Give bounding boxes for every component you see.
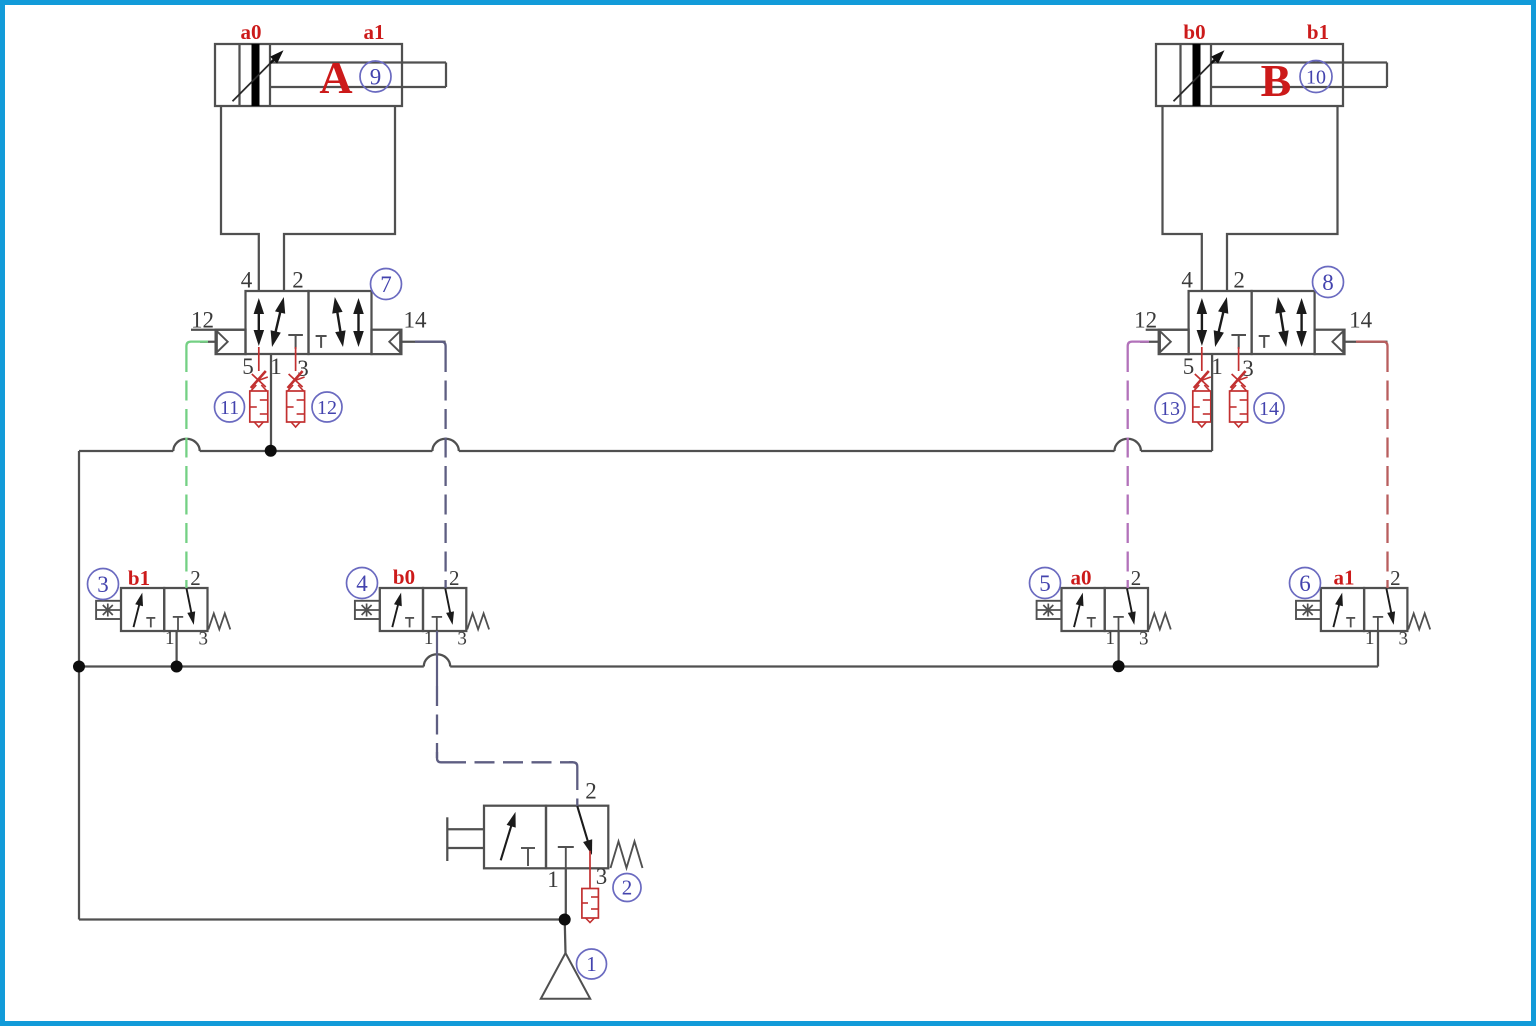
svg-text:3: 3 — [596, 864, 608, 889]
wire cylinder B left port to valve 8 port 4 — [1163, 106, 1202, 291]
balloon 10 — [1300, 61, 1332, 93]
silencer 11 on valve 7 port 5 — [250, 347, 268, 427]
svg-text:1: 1 — [165, 628, 175, 649]
svg-text:13: 13 — [1160, 398, 1180, 420]
svg-text:a1: a1 — [1334, 566, 1355, 590]
pilot line green valve 3 to valve 7 port 12 — [186, 342, 208, 588]
valve 7 port 12 stub — [191, 330, 246, 342]
svg-text:14: 14 — [1259, 398, 1279, 420]
junction valve 7 port 1 / bus — [265, 445, 277, 457]
svg-text:1: 1 — [586, 952, 597, 976]
svg-text:11: 11 — [220, 397, 239, 419]
svg-text:a1: a1 — [364, 20, 385, 44]
balloon 4 — [347, 568, 378, 599]
svg-text:6: 6 — [1299, 571, 1311, 596]
valve 8 port 12 stub — [1140, 330, 1189, 342]
wire cylinder A right port to valve 7 port 2 — [284, 106, 395, 291]
valve 2 push button actuator — [447, 817, 484, 861]
svg-text:4: 4 — [356, 571, 368, 596]
valve 8 5/2 impulse valve — [1159, 291, 1345, 354]
label a1 — [1334, 566, 1355, 590]
valve 7 port labels — [191, 268, 427, 382]
svg-text:10: 10 — [1306, 66, 1326, 88]
label A — [319, 52, 352, 103]
bottom supply wire — [79, 918, 565, 920]
svg-text:3: 3 — [199, 629, 209, 650]
svg-text:2: 2 — [1390, 566, 1401, 590]
silencer 12 on valve 7 port 3 — [287, 347, 305, 427]
svg-text:a0: a0 — [1071, 566, 1092, 590]
svg-text:5: 5 — [1039, 571, 1051, 596]
pressure bus lower — [79, 631, 1378, 667]
junction left riser / lower bus — [73, 661, 85, 673]
svg-text:2: 2 — [1233, 268, 1245, 293]
wire valve 5 port 1 to bus — [1117, 631, 1119, 667]
svg-text:a0: a0 — [241, 20, 262, 44]
junction source / valve 2 port 1 — [559, 914, 571, 926]
balloon 1 — [577, 949, 607, 979]
wire valve 2 port 1 down — [565, 868, 567, 919]
silencer 14 on valve 8 port 3 — [1230, 347, 1248, 427]
valve 8 port 14 stub — [1345, 341, 1388, 343]
wire valve 7 port 1 down to bus — [270, 354, 272, 451]
silencer 13 on valve 8 port 5 — [1193, 347, 1211, 427]
svg-text:4: 4 — [241, 268, 253, 293]
svg-text:2: 2 — [190, 566, 201, 590]
cylinder B (component 10) — [1156, 44, 1387, 106]
wire valve 8 port 1 down to bus — [1211, 354, 1213, 451]
svg-text:12: 12 — [317, 397, 337, 419]
svg-text:3: 3 — [457, 629, 467, 650]
svg-text:b0: b0 — [393, 565, 415, 589]
svg-text:1: 1 — [547, 867, 559, 892]
balloon 14 — [1254, 393, 1284, 423]
label b1 — [1307, 20, 1329, 44]
balloon 9 — [360, 61, 391, 92]
label a0 — [241, 20, 262, 44]
label B — [1261, 55, 1292, 106]
svg-text:b0: b0 — [1183, 20, 1205, 44]
valve 2 port labels — [547, 779, 607, 893]
balloon 2 — [613, 874, 641, 902]
valve 6 roller limit valve a1 — [1296, 566, 1430, 650]
pressure bus upper — [79, 439, 1212, 451]
valve 5 roller limit valve a0 — [1037, 566, 1171, 650]
pilot line red valve 8 port 14 to valve 6 port 2 — [1356, 342, 1388, 588]
pilot line blue valve 7 port 14 to valve 4 port 2 — [415, 342, 446, 588]
pilot line purple valve 8 port 12 to valve 5 port 2 — [1128, 342, 1149, 588]
valve 7 5/2 impulse valve — [216, 291, 402, 354]
junction valve 3 port 1 — [171, 661, 183, 673]
balloon 13 — [1155, 393, 1185, 423]
svg-text:B: B — [1261, 55, 1292, 106]
wire valve 3 port 1 to bus — [175, 631, 177, 667]
balloon 5 — [1030, 568, 1061, 599]
svg-text:3: 3 — [1242, 356, 1254, 381]
label a1 — [364, 20, 385, 44]
valve 2 push-button 3/2 valve — [484, 806, 643, 869]
wire cylinder B right port to valve 8 port 2 — [1227, 106, 1338, 291]
valve 7 port 14 stub — [401, 341, 445, 343]
valve 4 roller limit valve b0 — [355, 566, 489, 650]
svg-text:3: 3 — [97, 572, 109, 597]
valve 8 port labels — [1134, 268, 1373, 382]
label a0 — [1071, 566, 1092, 590]
valve 3 roller limit valve b1 — [96, 566, 230, 650]
balloon 12 — [312, 392, 342, 422]
svg-text:4: 4 — [1181, 268, 1193, 293]
svg-text:7: 7 — [380, 272, 392, 297]
svg-text:b1: b1 — [128, 566, 150, 590]
svg-text:8: 8 — [1322, 270, 1334, 295]
silencer on valve 2 port 3 — [582, 851, 599, 923]
svg-text:1: 1 — [424, 628, 434, 649]
balloon 11 — [215, 392, 245, 422]
svg-text:2: 2 — [622, 876, 633, 900]
svg-text:14: 14 — [1349, 308, 1373, 333]
svg-text:2: 2 — [1131, 566, 1142, 590]
svg-text:1: 1 — [1106, 628, 1116, 649]
svg-text:2: 2 — [449, 566, 460, 590]
svg-text:1: 1 — [1365, 628, 1375, 649]
svg-text:3: 3 — [1398, 629, 1408, 650]
balloon 8 — [1313, 267, 1344, 298]
wire cylinder A left port to valve 7 port 4 — [221, 106, 259, 291]
compressed air source (component 1) — [541, 920, 590, 999]
balloon 7 — [371, 269, 402, 300]
svg-text:b1: b1 — [1307, 20, 1329, 44]
svg-text:5: 5 — [1183, 354, 1195, 379]
svg-text:2: 2 — [292, 268, 304, 293]
svg-text:14: 14 — [404, 308, 428, 333]
pilot line blue valve 2 port 2 to valve 4 port 1 — [437, 631, 577, 806]
junction valve 5 port 1 — [1113, 660, 1125, 672]
svg-text:A: A — [319, 52, 352, 103]
svg-text:3: 3 — [1139, 629, 1149, 650]
svg-text:9: 9 — [370, 64, 382, 89]
svg-text:2: 2 — [585, 779, 597, 804]
label b0 — [393, 565, 415, 589]
balloon 3 — [88, 569, 119, 600]
cylinder A (component 9) — [215, 44, 446, 106]
label b1 — [128, 566, 150, 590]
left supply riser — [78, 451, 80, 920]
balloon 6 — [1290, 568, 1321, 599]
label b0 — [1183, 20, 1205, 44]
